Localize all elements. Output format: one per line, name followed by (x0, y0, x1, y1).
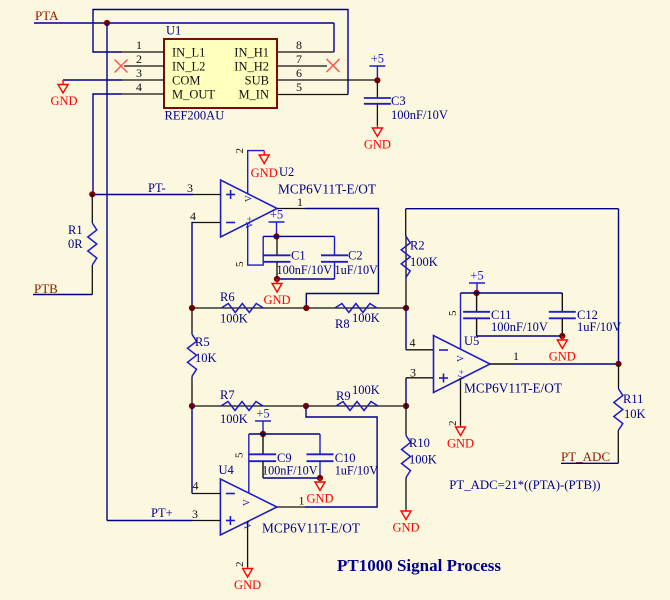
U1 pin 6 (278, 79, 377, 81)
svg-text:R2: R2 (410, 239, 425, 253)
junction R7/R9/U4fb (303, 403, 309, 409)
svg-text:MCP6V11T-E/OT: MCP6V11T-E/OT (464, 381, 562, 396)
wire C9/C10 supply rail (249, 433, 320, 435)
svg-text:2: 2 (234, 562, 246, 568)
svg-text:1uF/10V: 1uF/10V (335, 464, 379, 478)
svg-text:PT_ADC=21*((PTA)-(PTB)): PT_ADC=21*((PTA)-(PTB)) (449, 478, 600, 492)
svg-text:3: 3 (192, 507, 198, 521)
U1 pin 3 (122, 79, 164, 81)
wire R6-R8 row (192, 307, 406, 309)
svg-text:100K: 100K (409, 453, 437, 467)
capacitor C9 (262, 434, 264, 454)
svg-text:V: V (243, 499, 253, 506)
resistor R9 (336, 402, 378, 411)
svg-text:1: 1 (297, 195, 303, 209)
wire C1/C2 ground rail (277, 278, 335, 280)
svg-text:V: V (245, 195, 255, 202)
U5 pin 1 output (490, 363, 513, 365)
svg-text:4: 4 (410, 336, 416, 350)
svg-text:MCP6V11T-E/OT: MCP6V11T-E/OT (262, 521, 360, 536)
svg-text:GND: GND (447, 437, 474, 451)
op-amp U2 (221, 180, 278, 237)
svg-text:GND: GND (392, 521, 419, 535)
svg-text:5: 5 (234, 261, 246, 267)
svg-text:+5: +5 (371, 52, 384, 66)
svg-text:100nF/10V: 100nF/10V (277, 263, 333, 277)
svg-text:100nF/10V: 100nF/10V (262, 464, 318, 478)
junction R9/R10/U5pin3 (403, 403, 409, 409)
U1 pin 7 with no-connect (278, 65, 327, 67)
wire C9/C10 ground rail (263, 477, 320, 479)
wire PT- net (92, 194, 193, 196)
junction R5/R7/U4pin4 (189, 403, 195, 409)
junction R8/R2/U5pin4 (403, 305, 409, 311)
svg-text:V: V (457, 355, 467, 362)
svg-text:1: 1 (299, 494, 305, 508)
U4 pin 1 output (277, 506, 305, 508)
wire U4 output feedback (305, 406, 377, 507)
svg-text:3: 3 (410, 366, 416, 380)
wire U1 pin4 down to PT- node (93, 94, 122, 194)
U4 pin 4 wire from R7 node (191, 406, 193, 494)
svg-text:100nF/10V: 100nF/10V (491, 320, 548, 334)
svg-text:5: 5 (234, 452, 246, 458)
svg-text:2: 2 (447, 421, 459, 427)
wire U2 output feedback (305, 209, 378, 309)
junction R6/R8/U2fb (303, 305, 309, 311)
svg-text:U1: U1 (166, 24, 181, 38)
svg-text:R8: R8 (335, 317, 350, 331)
svg-text:GND: GND (50, 94, 77, 108)
svg-text:100nF/10V: 100nF/10V (391, 108, 448, 122)
U2 pin 3 (193, 194, 221, 196)
capacitor C10 (319, 434, 321, 454)
svg-text:GND: GND (251, 166, 278, 180)
svg-text:+5: +5 (270, 208, 283, 222)
svg-text:R1: R1 (68, 223, 83, 237)
svg-text:U2: U2 (279, 165, 294, 179)
wire PTB net (33, 294, 92, 296)
wire C1/C2 supply rail (263, 235, 334, 237)
svg-text:GND: GND (549, 350, 576, 364)
svg-text:IN_H2: IN_H2 (234, 59, 269, 73)
svg-text:PT_ADC: PT_ADC (561, 449, 610, 464)
junction R6 left (189, 305, 195, 311)
svg-text:GND: GND (306, 492, 333, 506)
svg-text:4: 4 (190, 209, 196, 223)
svg-text:IN_L2: IN_L2 (172, 59, 205, 73)
capacitor C2 (334, 236, 336, 255)
svg-text:V-: V- (244, 520, 254, 529)
svg-text:V+: V+ (458, 369, 468, 381)
capacitor C11 (476, 293, 478, 312)
junction PT-/R1/M_OUT (89, 191, 95, 197)
resistor R6 (221, 304, 263, 313)
junction C12 gnd (559, 333, 565, 339)
junction PTA node (104, 20, 110, 26)
junction +5 rail U5 (474, 290, 480, 296)
resistor R7 (221, 402, 263, 411)
U2 pin 5 stub (248, 223, 264, 265)
svg-text:5: 5 (296, 80, 302, 94)
ground GND below C10 (319, 478, 321, 482)
svg-text:2: 2 (136, 52, 142, 66)
svg-text:+5: +5 (256, 407, 269, 421)
svg-text:C2: C2 (348, 249, 363, 263)
U4 pin 2 stub to GND (247, 521, 249, 567)
wire R7-R9 row (192, 405, 406, 407)
wire PTA net horizontal (34, 22, 334, 24)
capacitor C1 (276, 236, 278, 255)
wire pin8 riser to PTA (333, 23, 335, 52)
ground GND below C1 (276, 279, 278, 284)
svg-text:4: 4 (193, 479, 199, 493)
svg-text:R10: R10 (409, 436, 430, 450)
resistor R1 (91, 194, 93, 223)
wire U1 COM to GND (63, 79, 122, 81)
svg-text:IN_L1: IN_L1 (172, 45, 205, 59)
wire C11/C12 ground rail (477, 335, 563, 337)
wire U5 pin3 from R9 node (405, 378, 407, 406)
junction C10 gnd (317, 475, 323, 481)
svg-text:U4: U4 (219, 463, 235, 477)
junction +5 rail U2 (273, 233, 279, 239)
svg-text:PTA: PTA (35, 8, 59, 23)
U5 pin 5 stub (460, 293, 462, 349)
svg-text:100K: 100K (410, 255, 438, 269)
ground GND below C12 (561, 336, 563, 340)
U5 pin 2 stub to GND (460, 378, 462, 425)
op-amp U5 (434, 336, 491, 393)
svg-text:R6: R6 (220, 290, 235, 304)
resistor R8 (335, 304, 377, 313)
junction +5/C3/pin6 (374, 77, 380, 83)
U1 pin 1 (122, 51, 164, 53)
U2 pin 1 output (277, 208, 305, 210)
svg-text:M_IN: M_IN (238, 87, 269, 101)
svg-text:GND: GND (234, 578, 261, 592)
svg-text:C1: C1 (291, 249, 306, 263)
capacitor C12 (561, 293, 563, 312)
U1 pin 2 with no-connect (124, 65, 164, 67)
svg-text:10K: 10K (624, 407, 646, 421)
op-amp U4 (220, 479, 277, 535)
svg-text:M_OUT: M_OUT (172, 87, 215, 101)
junction +5 rail U4 (260, 431, 266, 437)
U2 pin 2 stub to GND (248, 151, 265, 194)
svg-text:100K: 100K (352, 311, 380, 325)
svg-text:100K: 100K (352, 383, 380, 397)
svg-text:8: 8 (296, 38, 302, 52)
ground GND at U1 COM (62, 80, 64, 84)
svg-text:R9: R9 (336, 389, 351, 403)
svg-text:PT1000 Signal Process: PT1000 Signal Process (337, 556, 501, 575)
resistor R5 (188, 334, 197, 376)
svg-text:100K: 100K (220, 312, 248, 326)
svg-text:R5: R5 (195, 335, 210, 349)
svg-text:2: 2 (234, 148, 246, 154)
svg-text:1uF/10V: 1uF/10V (577, 320, 621, 334)
resistor R11 (618, 364, 620, 389)
svg-text:PT+: PT+ (151, 506, 173, 520)
wire R2 top to output node (406, 208, 619, 210)
svg-text:GND: GND (263, 293, 290, 307)
resistor R10 (405, 406, 407, 436)
svg-text:1uF/10V: 1uF/10V (335, 263, 379, 277)
wire C11/C12 supply rail (461, 292, 563, 294)
svg-text:R11: R11 (623, 392, 643, 406)
wire PT_ADC net (561, 462, 618, 464)
wire U5 pin4 from R8 node (405, 308, 407, 350)
resistor R2 (405, 236, 407, 308)
U4 pin 5 stub (248, 434, 250, 493)
ground GND below R10 (405, 510, 407, 512)
svg-text:GND: GND (364, 138, 391, 152)
svg-text:5: 5 (447, 310, 459, 316)
svg-text:C3: C3 (391, 94, 406, 108)
svg-text:3: 3 (187, 181, 193, 195)
svg-text:0R: 0R (68, 237, 83, 251)
svg-text:R7: R7 (220, 388, 235, 402)
svg-text:SUB: SUB (245, 73, 269, 87)
U1 pin 4 (122, 93, 164, 95)
U1 pin 5 (278, 94, 348, 96)
svg-text:IN_H1: IN_H1 (234, 45, 269, 59)
wire top loop pin5 to pin1 (93, 10, 348, 95)
U2 pin 4 wire to R6 node (193, 222, 221, 224)
svg-text:PTB: PTB (34, 281, 58, 296)
svg-text:+5: +5 (470, 269, 483, 283)
svg-text:3: 3 (136, 66, 142, 80)
svg-text:7: 7 (296, 52, 302, 66)
wire PT+ net (107, 520, 193, 522)
svg-text:6: 6 (296, 66, 302, 80)
wire U5 output to PT_ADC node (513, 363, 619, 365)
svg-text:REF200AU: REF200AU (165, 109, 225, 123)
U4 pin 3 (193, 520, 221, 522)
junction output/R11 (615, 361, 621, 367)
svg-text:COM: COM (172, 73, 200, 87)
capacitor C3 (376, 80, 378, 98)
ground GND below C3 (376, 125, 378, 128)
wire PTA junction down to PT+ (long left vertical) (106, 23, 108, 521)
svg-text:10K: 10K (195, 351, 217, 365)
svg-text:1: 1 (136, 38, 142, 52)
svg-text:MCP6V11T-E/OT: MCP6V11T-E/OT (278, 182, 376, 197)
svg-text:100K: 100K (220, 412, 248, 426)
svg-text:1: 1 (513, 349, 519, 363)
svg-text:4: 4 (136, 80, 142, 94)
junction C1 gnd (274, 276, 280, 282)
U1 pin 8 (278, 51, 334, 53)
svg-text:PT-: PT- (148, 181, 166, 195)
IC U1 REF200AU body (164, 39, 277, 108)
